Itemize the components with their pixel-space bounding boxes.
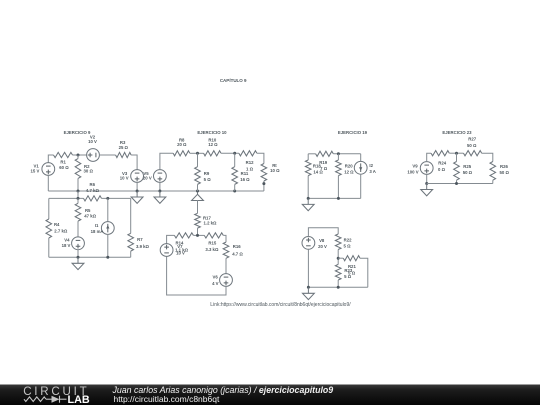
svg-text:V9: V9 xyxy=(412,163,418,168)
svg-text:30 Ω: 30 Ω xyxy=(83,169,93,174)
junction node R1/R2/V2 xyxy=(77,154,80,157)
wire V9 bottom lead xyxy=(426,174,428,183)
wire R19 to right rail xyxy=(333,153,360,155)
wire R24 to R27 xyxy=(449,152,463,154)
svg-text:100 V: 100 V xyxy=(407,170,418,175)
junction node R9 top xyxy=(196,152,199,155)
svg-text:5 Ω: 5 Ω xyxy=(344,274,352,279)
wire R20 bottom lead xyxy=(337,176,339,199)
svg-text:20 Ω: 20 Ω xyxy=(177,142,187,147)
svg-text:R7: R7 xyxy=(137,237,143,242)
svg-text:1.2 kΩ: 1.2 kΩ xyxy=(203,220,217,225)
resistor R1 xyxy=(54,152,73,157)
wire R25 bottom lead xyxy=(456,180,458,183)
wire left corner to R19 xyxy=(308,153,315,155)
svg-text:R26: R26 xyxy=(500,164,508,169)
wire V9 top to R24 xyxy=(427,153,431,162)
resistor R6 xyxy=(84,196,102,201)
wire R11 bottom lead xyxy=(234,184,236,191)
resistor R11 xyxy=(232,167,238,185)
voltage source V3 xyxy=(131,170,144,183)
junction node V4 bottom xyxy=(77,256,80,259)
junction node V8 bottom xyxy=(307,286,310,289)
svg-text:5 Ω: 5 Ω xyxy=(204,177,212,182)
ground GND flipped at R9 bottom xyxy=(192,192,204,201)
junction node R11 bottom xyxy=(233,190,236,193)
wire R8 to R10 xyxy=(190,152,204,154)
wire bottom wire lower circuit xyxy=(49,256,131,258)
svg-text:18 V: 18 V xyxy=(62,243,71,248)
resistor R7 xyxy=(128,233,134,251)
wire R18 top lead xyxy=(307,154,309,160)
junction node R17 bottom xyxy=(196,234,199,237)
junction node Rt bottom xyxy=(262,182,265,185)
junction node R23 bottom xyxy=(337,286,340,289)
junction node V3 bottom xyxy=(136,190,139,193)
svg-text:V8: V8 xyxy=(319,238,325,243)
svg-text:R22: R22 xyxy=(344,238,352,243)
svg-text:V4: V4 xyxy=(64,238,70,243)
svg-text:CAPÍTULO 9: CAPÍTULO 9 xyxy=(220,76,247,83)
resistor R2 xyxy=(75,159,81,179)
resistor R5 xyxy=(75,203,81,221)
voltage source V9 xyxy=(420,162,433,175)
wire V2 to R3 xyxy=(99,154,115,156)
svg-text:4 V: 4 V xyxy=(212,281,219,286)
svg-text:3.3 kΩ: 3.3 kΩ xyxy=(205,247,219,252)
junction node R20 top xyxy=(337,152,340,155)
svg-text:I1: I1 xyxy=(95,223,99,228)
svg-text:60 Ω: 60 Ω xyxy=(59,165,69,170)
wire V5 top to R8 xyxy=(160,153,173,170)
resistor R19 xyxy=(316,151,334,156)
wire V5 bottom lead xyxy=(159,182,161,191)
resistor Rt xyxy=(261,164,267,182)
wire left rail upper xyxy=(48,198,50,219)
junction node R25 top xyxy=(455,152,458,155)
junction node R20 bottom xyxy=(337,197,340,200)
svg-text:R9: R9 xyxy=(204,171,210,176)
wire R14 to R15 xyxy=(193,234,204,236)
svg-text:20 V: 20 V xyxy=(318,244,327,249)
svg-text:R4: R4 xyxy=(54,222,60,227)
wire V8 bottom lead xyxy=(307,249,309,287)
svg-text:R25: R25 xyxy=(463,164,471,169)
wire R11 top lead xyxy=(234,153,236,166)
svg-text:18 mA: 18 mA xyxy=(91,229,104,234)
svg-text:12 Ω: 12 Ω xyxy=(344,170,354,175)
resistor R3 xyxy=(116,152,132,157)
junction node V9 bottom xyxy=(425,182,428,185)
resistor R17 xyxy=(195,213,201,228)
voltage source V6 xyxy=(220,274,233,287)
svg-text:EJERCICIO 19: EJERCICIO 19 xyxy=(338,130,368,135)
svg-text:14 Ω: 14 Ω xyxy=(313,170,323,175)
svg-text:R15: R15 xyxy=(208,240,216,245)
resistor R23 xyxy=(335,264,341,280)
svg-text:EJERCICIO 23: EJERCICIO 23 xyxy=(442,130,472,135)
wire R9 top lead xyxy=(197,153,199,166)
resistor R26 xyxy=(490,162,496,181)
svg-text:4.7 Ω: 4.7 Ω xyxy=(232,252,243,257)
wire link to lower circuit xyxy=(77,191,79,198)
wire R9 bottom lead xyxy=(197,184,199,191)
resistor R15 xyxy=(204,233,223,238)
svg-text:15 V: 15 V xyxy=(30,168,39,173)
resistor R10 xyxy=(204,151,221,156)
svg-text:50 Ω: 50 Ω xyxy=(467,143,477,148)
wire R22 to R23 xyxy=(337,250,339,265)
wire R7 top lead xyxy=(130,198,132,233)
wire R2 leads xyxy=(77,155,79,191)
wire R15 to R16 xyxy=(223,235,226,242)
junction node R21 left xyxy=(337,257,340,260)
svg-text:10 V: 10 V xyxy=(176,250,185,255)
junction node R9 bottom xyxy=(196,190,199,193)
wire left rail lower xyxy=(48,238,50,257)
voltage source V4 xyxy=(72,237,85,250)
junction node R11 top xyxy=(233,152,236,155)
voltage source V1 xyxy=(42,163,55,176)
svg-text:EJERCICIO 10: EJERCICIO 10 xyxy=(197,130,227,135)
wire R23 bottom lead xyxy=(337,280,339,287)
wire R21 to bottom xyxy=(360,258,368,287)
wire I2 bottom lead xyxy=(360,174,362,198)
svg-text:R24: R24 xyxy=(438,160,446,165)
svg-text:4.7 kΩ: 4.7 kΩ xyxy=(86,188,100,193)
svg-text:16 Ω: 16 Ω xyxy=(240,177,250,182)
wire R18 bottom lead xyxy=(307,176,309,199)
wire R7 bottom lead xyxy=(130,251,132,257)
wire bottom bus net GND row xyxy=(48,190,264,192)
svg-text:25 Ω: 25 Ω xyxy=(119,145,129,150)
voltage source V7 xyxy=(160,244,173,257)
CircuitLab logo resistor-diode symbol xyxy=(24,396,67,403)
wire V4 bottom lead xyxy=(77,250,79,258)
wire R10 to R12 xyxy=(221,152,239,154)
resistor R25 xyxy=(454,162,460,181)
ground GND lower circuit xyxy=(72,257,84,269)
voltage source V8 xyxy=(302,237,315,250)
svg-text:R5: R5 xyxy=(85,208,91,213)
wire R5 to V4 xyxy=(77,221,79,237)
junction node I1 top xyxy=(106,197,109,200)
junction node R2 bottom xyxy=(77,190,80,193)
current source I2 xyxy=(354,161,367,174)
svg-text:Link:https://www.circuitlab.co: Link:https://www.circuitlab.com/circuit/… xyxy=(210,302,351,308)
resistor R8 xyxy=(173,151,190,156)
junction node R5 top xyxy=(77,197,80,200)
wire to R21 xyxy=(338,257,343,259)
wire R20 top lead xyxy=(337,154,339,160)
svg-text:R16: R16 xyxy=(233,244,241,249)
wire bottom wire E19 xyxy=(308,197,361,199)
svg-text:50 Ω: 50 Ω xyxy=(463,170,473,175)
svg-text:EJERCICIO 9: EJERCICIO 9 xyxy=(64,130,91,135)
resistor R22 xyxy=(335,234,341,250)
svg-text:R11: R11 xyxy=(241,171,249,176)
svg-text:12 Ω: 12 Ω xyxy=(208,142,218,147)
ground GND V8 circuit xyxy=(303,287,315,299)
resistor R9 xyxy=(195,167,201,185)
wire bottom wire V8 circuit xyxy=(308,286,367,288)
svg-text:20 V: 20 V xyxy=(143,176,152,181)
resistor R18 xyxy=(305,160,311,176)
wire top-left wire to R6 xyxy=(49,197,84,199)
svg-text:R12: R12 xyxy=(246,160,254,165)
junction node R25 bottom xyxy=(455,182,458,185)
voltage source V5 xyxy=(154,170,167,183)
ground GND under V5 xyxy=(154,191,166,203)
resistor R12 xyxy=(239,151,257,156)
svg-text:2.7 kΩ: 2.7 kΩ xyxy=(54,229,68,234)
wire R1 to V2 xyxy=(73,154,87,156)
wire R12 to Rt xyxy=(257,153,264,163)
ground GND E19 xyxy=(302,198,314,210)
wire R3 to V3 top xyxy=(131,155,137,170)
svg-text:5 Ω: 5 Ω xyxy=(343,243,351,248)
svg-text:0 Ω: 0 Ω xyxy=(438,167,446,172)
svg-text:R6: R6 xyxy=(90,182,96,187)
wire V1 top to R1 xyxy=(48,155,53,163)
resistor R21 xyxy=(343,256,360,261)
junction node GND E19 xyxy=(307,197,310,200)
wire V1 bottom lead xyxy=(47,175,49,191)
wire I2 top lead xyxy=(360,154,362,162)
wire R6 to right rail xyxy=(102,197,131,199)
wire V6 bottom to V7 bottom xyxy=(167,256,226,295)
resistor R20 xyxy=(336,160,342,176)
wire I1 top lead xyxy=(107,198,109,221)
wire to R17 xyxy=(197,200,199,213)
svg-text:47 kΩ: 47 kΩ xyxy=(84,214,96,219)
resistor R16 xyxy=(223,242,229,258)
wire R5 top lead xyxy=(77,198,79,203)
svg-text:3 A: 3 A xyxy=(369,169,376,174)
wire V7 top to R14 xyxy=(167,235,175,243)
svg-text:LAB: LAB xyxy=(68,394,90,405)
wire R17 bottom lead xyxy=(197,228,199,235)
svg-text:10 Ω: 10 Ω xyxy=(270,168,280,173)
wire bottom wire E23 xyxy=(427,183,493,185)
wire V3 bottom lead xyxy=(136,182,138,191)
svg-text:3.9 kΩ: 3.9 kΩ xyxy=(136,244,150,249)
junction node V5 bottom xyxy=(158,190,161,193)
wire Rt bottom lead xyxy=(263,181,265,191)
ground GND under V3 xyxy=(131,191,143,203)
wire R16 to V6 xyxy=(225,258,227,274)
resistor R24 xyxy=(431,151,449,156)
wire R26 bottom lead xyxy=(492,180,494,183)
voltage source V2 xyxy=(87,149,100,162)
wire R27 to R26 xyxy=(482,153,493,161)
junction node I1 bottom xyxy=(106,256,109,259)
svg-text:I2: I2 xyxy=(369,163,373,168)
wire V8 top to R22 xyxy=(308,228,338,237)
resistor R14 xyxy=(174,233,193,238)
svg-text:50 Ω: 50 Ω xyxy=(499,170,509,175)
ground GND E23 xyxy=(421,184,433,196)
svg-text:V6: V6 xyxy=(212,274,218,279)
svg-text:http://circuitlab.com/c8nb6qt: http://circuitlab.com/c8nb6qt xyxy=(114,394,220,404)
wire I1 bottom lead xyxy=(107,234,109,257)
svg-text:R27: R27 xyxy=(468,137,476,142)
current source I1 xyxy=(101,222,114,235)
resistor R4 xyxy=(46,219,52,238)
svg-text:10 V: 10 V xyxy=(88,139,97,144)
wire R25 top lead xyxy=(456,153,458,161)
svg-text:R20: R20 xyxy=(345,164,353,169)
resistor R27 xyxy=(464,151,482,156)
svg-text:10 V: 10 V xyxy=(120,176,129,181)
